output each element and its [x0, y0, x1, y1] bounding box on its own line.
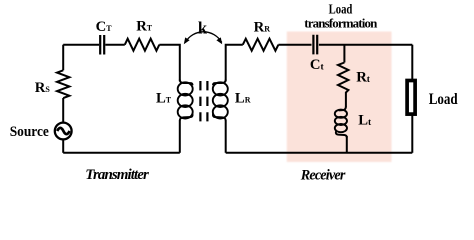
wire LR bottom lead to receiver bottom rail — [225, 120, 227, 153]
svg-text:k: k — [198, 18, 208, 37]
svg-text:Transmitter: Transmitter — [85, 167, 149, 183]
wire CT to RT — [105, 44, 125, 46]
load transformation shaded region — [287, 32, 392, 163]
wire transmitter bottom rail — [63, 152, 180, 154]
wire node to Rt — [343, 45, 345, 63]
svg-text:Receiver: Receiver — [300, 168, 346, 184]
wire LR top lead up to receiver top corner, right to RR — [226, 45, 243, 81]
wire load bottom lead — [411, 115, 413, 153]
wire left vertical from top corner down to RS — [62, 45, 64, 71]
wire RT to transformer left corner, down to LT — [159, 45, 180, 81]
wire Lt to bottom rail — [346, 136, 348, 153]
wire LT bottom lead to bottom rail — [179, 120, 181, 153]
inductor Lt coil — [335, 107, 347, 138]
wire source to bottom rail — [62, 139, 64, 152]
resistor Rt — [338, 63, 348, 93]
source AC symbol — [55, 123, 72, 140]
svg-text:Load: Load — [429, 91, 458, 108]
wire Ct to load, through node at Rt branch — [319, 44, 412, 46]
wire receiver bottom rail — [226, 152, 413, 154]
load resistor box — [407, 81, 415, 115]
svg-text:Load: Load — [329, 2, 353, 17]
capacitor Ct plates — [313, 35, 317, 55]
wire Rt to Lt — [345, 92, 347, 107]
svg-text:transformation: transformation — [304, 15, 378, 30]
wire top-left rail from left corner to CT — [63, 44, 99, 46]
inductor LR coil — [213, 80, 228, 121]
transformer core dashed lines — [200, 81, 207, 121]
resistor RR — [243, 39, 279, 51]
capacitor CT plates — [100, 35, 104, 55]
svg-text:Source: Source — [10, 124, 50, 140]
wire RR to Ct — [278, 44, 311, 46]
wire RS to source — [62, 98, 64, 123]
coupling arrow k — [185, 32, 222, 43]
resistor RT — [125, 39, 160, 51]
inductor LT coil — [178, 80, 193, 121]
resistor RS — [57, 70, 69, 98]
wire load top lead — [411, 45, 413, 80]
